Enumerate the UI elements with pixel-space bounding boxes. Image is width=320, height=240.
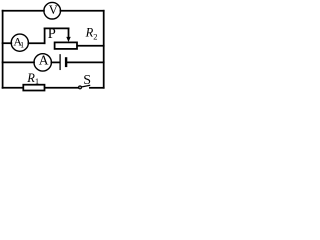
- wire top-left (left rail to voltmeter): [3, 10, 44, 12]
- svg-text:V: V: [49, 3, 58, 17]
- wire left rail: [2, 11, 4, 88]
- svg-text:S: S: [83, 73, 91, 88]
- wire rheostat to right rail: [77, 45, 103, 47]
- battery BT1 short plate: [65, 58, 67, 66]
- wire ammeter A to battery: [51, 61, 59, 63]
- wire battery to right rail: [67, 61, 104, 63]
- rheostat R2 box: [55, 42, 77, 49]
- wire right rail: [103, 11, 105, 88]
- svg-text:P: P: [48, 26, 56, 42]
- wire R1 to switch: [45, 87, 79, 89]
- wire wiper drop to arrow: [68, 28, 70, 37]
- ammeter A circle: [34, 54, 51, 71]
- battery BT1 long plate: [59, 55, 61, 70]
- resistor R1 box: [23, 85, 44, 91]
- wire top-right (voltmeter to right rail): [61, 10, 104, 12]
- voltmeter U1 circle: [44, 2, 61, 19]
- wire row3 left rail to ammeter A: [3, 61, 34, 63]
- wire wiper riser vertical: [44, 28, 46, 43]
- wire wiper horizontal: [45, 27, 69, 29]
- wire A1 stub from left rail: [3, 42, 12, 44]
- wire bottom-left rail to R1: [3, 87, 23, 89]
- svg-text:A: A: [39, 52, 49, 67]
- ammeter A1 circle: [11, 34, 28, 51]
- switch S pivot circle: [79, 86, 82, 89]
- switch S lever: [81, 85, 89, 87]
- wire A1 to wiper riser: [28, 42, 44, 44]
- arrowhead of rheostat wiper: [66, 37, 70, 42]
- wire switch to right rail: [90, 87, 104, 89]
